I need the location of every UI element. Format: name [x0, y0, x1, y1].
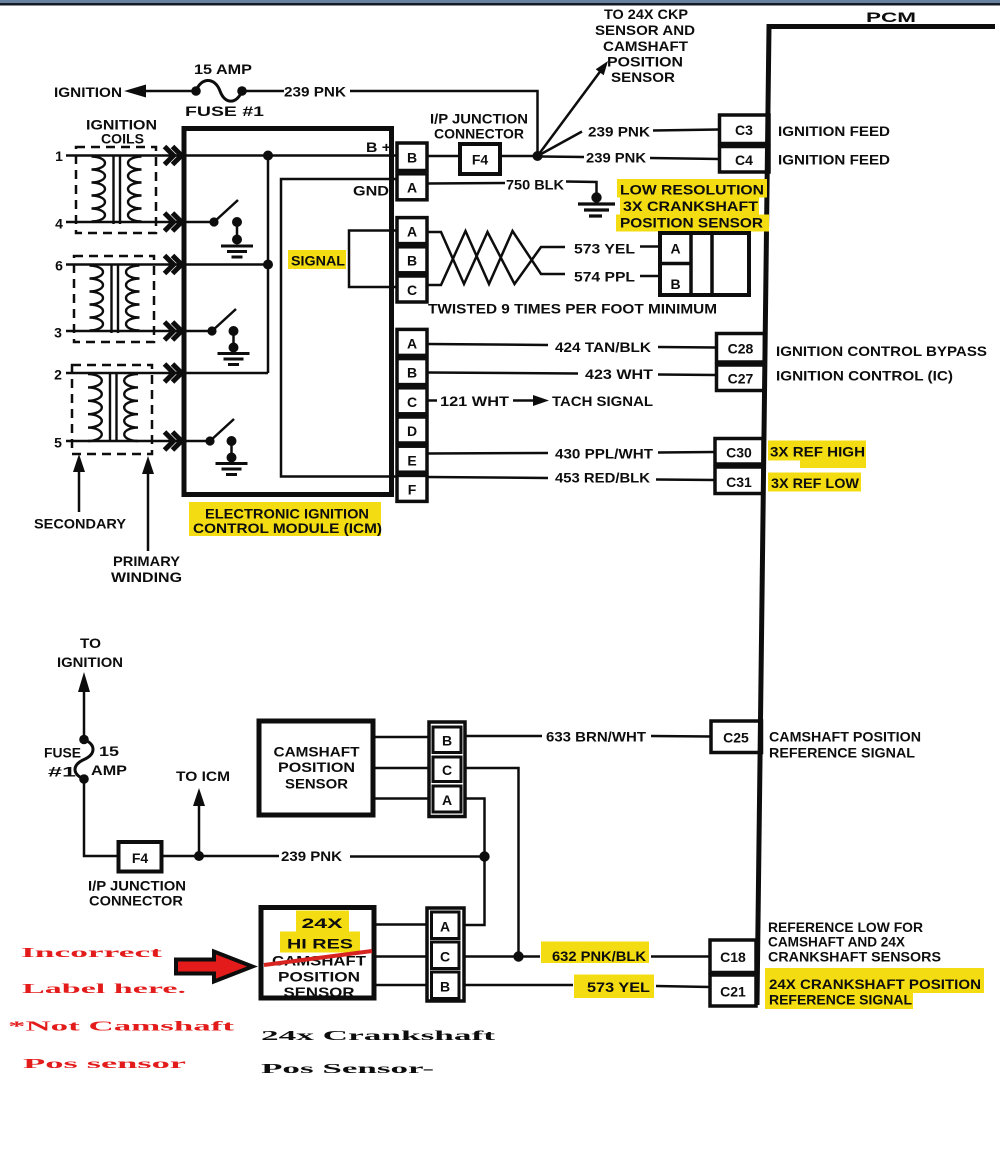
- wire 574 to sensor pin B: [640, 275, 660, 278]
- svg-text:CAMSHAFT POSITION: CAMSHAFT POSITION: [769, 729, 921, 745]
- switch Q2 (coil 6/3 driver): [207, 326, 216, 335]
- svg-text:#1: #1: [48, 764, 76, 780]
- wire cyl5 to switch3: [66, 440, 210, 443]
- svg-text:IGNITION CONTROL (IC): IGNITION CONTROL (IC): [776, 368, 953, 384]
- wire F4 to 239 PNK: [162, 855, 280, 858]
- node TO ICM tap: [194, 851, 204, 861]
- svg-text:C: C: [440, 949, 450, 965]
- ICM pin F (group3): [397, 475, 427, 501]
- svg-text:PCM: PCM: [866, 9, 916, 25]
- svg-text:15 AMP: 15 AMP: [194, 61, 252, 77]
- svg-text:I/P JUNCTION: I/P JUNCTION: [88, 878, 186, 894]
- wire to C4: [650, 158, 719, 159]
- label SIGNAL: [288, 250, 346, 269]
- svg-text:REFERENCE SIGNAL: REFERENCE SIGNAL: [769, 992, 912, 1008]
- label ELECTRONIC IGNITION CONTROL MODULE (ICM): [189, 502, 381, 536]
- svg-text:CONNECTOR: CONNECTOR: [434, 126, 524, 142]
- svg-text:A: A: [442, 792, 452, 808]
- wire ICM F to C31 (453 RED/BLK): [427, 477, 548, 478]
- wire arrowhead to fuse1: [145, 90, 192, 93]
- svg-text:F: F: [408, 482, 417, 498]
- svg-text:SENSOR: SENSOR: [285, 776, 348, 792]
- connector C18: [710, 940, 756, 973]
- fuse F1 (15 amp): [191, 86, 201, 96]
- svg-text:4: 4: [55, 216, 63, 232]
- node 632 junction: [513, 951, 523, 961]
- wire 573 to sensor pin A: [640, 245, 660, 248]
- chevron cyl4: [165, 213, 182, 231]
- label 573 YEL (highlighted): [574, 975, 654, 999]
- ignition coil pair 6/3 dashed box: [74, 256, 154, 342]
- switch Q1 (coil 1/4 driver): [209, 217, 218, 226]
- svg-text:IGNITION FEED: IGNITION FEED: [778, 123, 890, 139]
- svg-text:C: C: [442, 762, 452, 778]
- wire 24X stub B: [374, 984, 427, 987]
- ground switch3: [216, 464, 248, 475]
- arrow TO ICM: [198, 803, 201, 856]
- PCM boundary line: [757, 27, 995, 1006]
- arrow secondary winding: [78, 468, 81, 512]
- svg-text:632 PNK/BLK: 632 PNK/BLK: [552, 948, 646, 964]
- ICM pin B (group2): [397, 247, 427, 273]
- 24X sensor box: [261, 908, 374, 999]
- ICM pin A (group1): [397, 174, 427, 200]
- label 632 PNK/BLK (highlighted): [541, 942, 649, 964]
- svg-text:574 PPL: 574 PPL: [574, 269, 635, 285]
- wire ICM B to F4: [427, 155, 460, 158]
- svg-text:A: A: [670, 241, 680, 257]
- pin C: [432, 942, 460, 969]
- svg-text:B: B: [407, 150, 417, 166]
- ICM pin A (group3): [397, 329, 427, 355]
- wire cam C to 632 junction: [465, 768, 519, 953]
- label HI RES (highlighted): [280, 932, 360, 953]
- connector C25: [711, 721, 762, 753]
- svg-text:24X CRANKSHAFT POSITION: 24X CRANKSHAFT POSITION: [769, 976, 981, 992]
- ICM pin A (group2): [397, 218, 427, 244]
- svg-text:C25: C25: [723, 730, 749, 746]
- svg-text:POSITION: POSITION: [607, 54, 683, 70]
- wire 239 PNK to sensors junction: [350, 855, 485, 858]
- connector C21: [710, 975, 756, 1006]
- svg-text:453 RED/BLK: 453 RED/BLK: [555, 470, 650, 486]
- annotation red arrow: [176, 952, 253, 982]
- svg-text:CAMSHAFT: CAMSHAFT: [274, 744, 360, 760]
- wire 24X stub A: [374, 923, 427, 926]
- ignition coil pair 2/5 dashed box: [72, 365, 152, 454]
- wire signal bracket: [349, 231, 397, 288]
- label LOW RESOLUTION 3X CRANKSHAFT POSITION SENSOR: [617, 179, 767, 198]
- wire ICM A to C28 (424 TAN/BLK): [427, 344, 548, 345]
- svg-text:CONNECTOR: CONNECTOR: [89, 893, 183, 909]
- chevron cyl1: [165, 147, 182, 165]
- fuse #1 (bottom, 15 amp): [79, 735, 89, 745]
- chevron cyl2: [165, 364, 182, 382]
- pin C: [433, 757, 461, 782]
- svg-text:IGNITION FEED: IGNITION FEED: [778, 152, 890, 168]
- svg-text:1: 1: [55, 148, 63, 164]
- svg-text:239 PNK: 239 PNK: [586, 150, 646, 166]
- wire junction to C4: [542, 155, 584, 158]
- ICM pin D (group3): [397, 417, 427, 443]
- svg-text:B: B: [407, 253, 417, 269]
- 24X sensor pin column: [427, 908, 464, 1001]
- top window bar: [0, 0, 1000, 3]
- label 24X CRANKSHAFT POSITION REFERENCE SIGNAL (highlighted): [765, 968, 984, 993]
- svg-text:C: C: [407, 282, 417, 298]
- svg-text:SIGNAL: SIGNAL: [291, 253, 345, 269]
- svg-text:239 PNK: 239 PNK: [588, 124, 650, 140]
- wire 24X stub C: [374, 955, 427, 958]
- wire ICM A (GND) to 750 BLK: [427, 182, 505, 185]
- svg-text:B +: B +: [366, 139, 391, 155]
- arrow to 24X CKP sensor text: [538, 69, 603, 156]
- wire to C21: [656, 986, 710, 987]
- wire 750 BLK to ground: [566, 182, 597, 195]
- red strikethrough: [264, 951, 372, 965]
- svg-text:TWISTED 9 TIMES PER FOOT MINIM: TWISTED 9 TIMES PER FOOT MINIMUM: [428, 301, 717, 317]
- svg-text:B: B: [440, 979, 450, 995]
- svg-text:TACH SIGNAL: TACH SIGNAL: [552, 393, 653, 409]
- wire 24X C to C18 (632 PNK/BLK): [464, 955, 540, 958]
- wire cam sensor stub B: [373, 736, 429, 739]
- pin B: [432, 972, 460, 999]
- svg-text:Label here.: Label here.: [22, 982, 186, 997]
- label TO 24X CKP SENSOR: [595, 6, 695, 85]
- svg-text:CONTROL MODULE (ICM): CONTROL MODULE (ICM): [193, 520, 382, 536]
- svg-text:Pos Sensor-: Pos Sensor-: [261, 1062, 435, 1077]
- svg-text:2: 2: [54, 367, 62, 383]
- svg-text:CAMSHAFT AND 24X: CAMSHAFT AND 24X: [768, 934, 906, 950]
- svg-text:HI RES: HI RES: [287, 936, 353, 952]
- svg-text:C27: C27: [728, 371, 754, 387]
- wire to C18: [651, 955, 710, 958]
- svg-text:REFERENCE SIGNAL: REFERENCE SIGNAL: [769, 745, 915, 761]
- wire ICM E to C30 (430 PPL/WHT): [427, 452, 548, 455]
- svg-text:C4: C4: [735, 152, 753, 168]
- svg-text:239 PNK: 239 PNK: [281, 848, 342, 864]
- chevron cyl6: [165, 256, 182, 274]
- twisted pair wire C: [427, 231, 565, 285]
- svg-text:B: B: [670, 276, 680, 292]
- camshaft sensor pin column: [429, 722, 465, 817]
- svg-text:24x Crankshaft: 24x Crankshaft: [261, 1029, 496, 1044]
- connector C28: [717, 334, 765, 363]
- svg-text:A: A: [407, 180, 417, 196]
- node B+ junction coil1: [263, 151, 273, 161]
- svg-text:573 YEL: 573 YEL: [587, 979, 651, 995]
- ICM pin E (group3): [397, 446, 427, 472]
- svg-text:IGNITION: IGNITION: [54, 84, 122, 100]
- connector C31: [715, 467, 763, 494]
- wire cyl6 to B+ bus: [66, 263, 268, 266]
- svg-text:C: C: [407, 394, 417, 410]
- wire fuse to 239 PNK label: [246, 90, 284, 93]
- svg-text:TO ICM: TO ICM: [176, 768, 230, 784]
- coil 6/3 primary winding: [126, 266, 140, 331]
- junction connector F4 (top): [460, 144, 500, 174]
- svg-text:Pos sensor: Pos sensor: [23, 1057, 186, 1072]
- svg-text:24X: 24X: [302, 915, 344, 931]
- ICM pin C (group3): [397, 388, 427, 414]
- svg-text:CRANKSHAFT SENSORS: CRANKSHAFT SENSORS: [768, 949, 941, 965]
- svg-text:CAMSHAFT: CAMSHAFT: [603, 38, 688, 54]
- svg-text:Incorrect: Incorrect: [21, 946, 163, 961]
- chevron cyl5: [165, 432, 182, 450]
- connector C4: [720, 147, 770, 173]
- svg-text:5: 5: [54, 435, 62, 451]
- ground 750 BLK: [591, 192, 601, 202]
- svg-text:COILS: COILS: [101, 131, 144, 147]
- wire cyl1 to ICM B+: [66, 154, 397, 157]
- svg-text:GND: GND: [353, 183, 389, 199]
- node sensors feed junction: [479, 851, 489, 861]
- wire cyl2 to B+ bus corner: [66, 372, 268, 375]
- svg-text:E: E: [407, 453, 416, 469]
- arrowhead to ignition: [124, 85, 146, 98]
- svg-text:B: B: [442, 733, 452, 749]
- connector C3: [720, 115, 770, 144]
- chevron cyl3: [165, 322, 182, 340]
- pin B: [433, 727, 461, 753]
- svg-text:B: B: [407, 365, 417, 381]
- coil 2/5 core: [110, 374, 117, 442]
- svg-text:SECONDARY: SECONDARY: [34, 516, 127, 532]
- svg-text:IGNITION: IGNITION: [57, 654, 123, 670]
- label 3X REF HIGH: [768, 441, 866, 461]
- wire fuse to F4 (bottom): [84, 779, 118, 856]
- svg-text:A: A: [407, 224, 417, 240]
- ground switch1: [221, 246, 253, 257]
- svg-text:SENSOR: SENSOR: [284, 984, 355, 1000]
- junction connector F4 (bottom): [119, 842, 162, 872]
- ICM pin C (group2): [397, 276, 427, 302]
- svg-text:I/P JUNCTION: I/P JUNCTION: [430, 111, 528, 127]
- svg-text:239 PNK: 239 PNK: [284, 84, 346, 100]
- svg-text:IGNITION CONTROL BYPASS: IGNITION CONTROL BYPASS: [776, 343, 987, 359]
- svg-text:750 BLK: 750 BLK: [506, 177, 564, 193]
- ICM pin B (group3): [397, 359, 427, 385]
- svg-text:3X REF LOW: 3X REF LOW: [771, 475, 860, 491]
- wire junction to C3 diagonal: [538, 132, 583, 157]
- 3X crankshaft position sensor connector: [660, 233, 749, 295]
- svg-text:LOW RESOLUTION: LOW RESOLUTION: [620, 182, 764, 198]
- wire cam sensor stub A: [373, 797, 429, 800]
- svg-text:SENSOR AND: SENSOR AND: [595, 22, 695, 38]
- svg-text:D: D: [407, 423, 417, 439]
- node B+ junction coil6: [263, 260, 273, 270]
- switch Q3 (coil 2/5 driver): [205, 436, 214, 445]
- svg-text:FUSE #1: FUSE #1: [185, 103, 264, 119]
- wire cam sensor stub C: [373, 767, 429, 770]
- wire F4 to junction node: [500, 155, 533, 158]
- svg-text:6: 6: [55, 258, 63, 274]
- svg-text:C3: C3: [735, 122, 753, 138]
- pin A: [433, 786, 461, 812]
- svg-text:3X CRANKSHAFT: 3X CRANKSHAFT: [623, 198, 759, 214]
- svg-text:POSITION: POSITION: [278, 759, 355, 775]
- svg-text:C21: C21: [720, 984, 746, 1000]
- wire ICM C tach signal (121 WHT): [427, 399, 437, 402]
- svg-text:PRIMARY: PRIMARY: [113, 553, 181, 569]
- wire B+ bus vertical: [267, 156, 270, 374]
- coil 1/4 primary winding: [128, 157, 142, 222]
- svg-text:*Not Camshaft: *Not Camshaft: [8, 1020, 235, 1035]
- coil 2/5 secondary winding: [88, 374, 102, 441]
- ground switch2: [218, 354, 250, 365]
- svg-text:121 WHT: 121 WHT: [440, 393, 510, 409]
- twisted pair wire A: [427, 232, 565, 284]
- connector C27: [717, 365, 765, 391]
- wire cyl4 to switch1: [66, 221, 214, 224]
- wire 239 PNK to junction: [350, 91, 538, 153]
- coil 1/4 secondary winding: [92, 157, 106, 222]
- wire GND net rectangle: [281, 179, 397, 477]
- svg-text:TO: TO: [80, 635, 101, 651]
- svg-text:POSITION: POSITION: [278, 969, 360, 985]
- svg-text:C31: C31: [726, 474, 752, 490]
- svg-text:FUSE: FUSE: [44, 745, 81, 761]
- svg-text:F4: F4: [132, 850, 149, 866]
- svg-text:WINDING: WINDING: [111, 569, 182, 585]
- label 3X REF LOW: [768, 473, 861, 492]
- pin A: [432, 912, 460, 939]
- svg-text:3: 3: [54, 325, 62, 341]
- ICM pin B (group1): [397, 143, 427, 171]
- node junction 239 PNK: [533, 151, 543, 161]
- svg-text:430 PPL/WHT: 430 PPL/WHT: [555, 446, 653, 462]
- label 24X (highlighted): [296, 911, 349, 932]
- svg-text:AMP: AMP: [91, 762, 127, 778]
- wire cam B to C25 (633 BRN/WHT): [465, 735, 542, 738]
- arrow to ignition (bottom): [78, 672, 90, 692]
- svg-text:C28: C28: [728, 341, 754, 357]
- svg-text:A: A: [407, 336, 417, 352]
- wire to C3: [653, 130, 719, 131]
- wire 24X B to C21 (573 YEL): [464, 984, 573, 987]
- coil 6/3 core: [112, 265, 119, 333]
- svg-text:TO 24X CKP: TO 24X CKP: [604, 6, 688, 22]
- svg-text:15: 15: [99, 743, 119, 759]
- svg-text:573 YEL: 573 YEL: [574, 241, 635, 257]
- svg-text:423 WHT: 423 WHT: [585, 366, 654, 382]
- wire ICM B to C27 (423 WHT): [427, 373, 578, 374]
- arrow primary winding: [147, 470, 150, 551]
- camshaft position sensor box: [259, 721, 373, 815]
- svg-text:F4: F4: [472, 152, 489, 168]
- ignition coil pair 1/4 dashed box: [76, 147, 156, 233]
- wire cyl3 to switch2: [66, 330, 212, 333]
- svg-text:C30: C30: [726, 445, 752, 461]
- connector C30: [715, 439, 763, 465]
- svg-text:POSITION SENSOR: POSITION SENSOR: [620, 215, 763, 231]
- svg-text:633 BRN/WHT: 633 BRN/WHT: [546, 729, 646, 745]
- coil 6/3 secondary winding: [90, 266, 104, 331]
- coil 2/5 primary winding: [124, 374, 138, 441]
- coil 1/4 core: [114, 156, 121, 224]
- wire cam A to feed junction to 24X A: [465, 799, 485, 926]
- svg-text:SENSOR: SENSOR: [611, 69, 675, 85]
- svg-text:C18: C18: [720, 949, 746, 965]
- ICM module box: [184, 129, 392, 495]
- svg-text:424 TAN/BLK: 424 TAN/BLK: [555, 339, 651, 355]
- svg-text:3X REF HIGH: 3X REF HIGH: [770, 444, 865, 460]
- svg-text:A: A: [440, 919, 450, 935]
